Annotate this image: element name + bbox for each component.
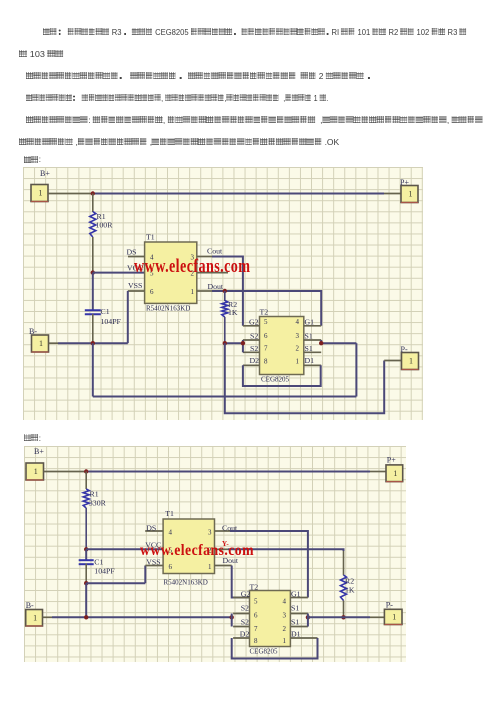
- pin 2 stub: [197, 272, 228, 274]
- transistor T2 (CEG8205): [260, 308, 304, 384]
- svg-text:D1: D1: [291, 630, 301, 639]
- resistor R2: [341, 575, 355, 617]
- svg-text:5: 5: [254, 598, 258, 606]
- svg-text:S1: S1: [305, 344, 313, 353]
- svg-text:3: 3: [296, 332, 300, 340]
- svg-text:104PF: 104PF: [101, 317, 122, 326]
- wire rail to C1: [92, 273, 94, 311]
- svg-text:B+: B+: [34, 447, 44, 456]
- wire rail to B-: [85, 583, 87, 617]
- wire B+ rail: [44, 471, 387, 473]
- svg-text:P-: P-: [386, 601, 393, 610]
- svg-text:Cout: Cout: [207, 247, 223, 256]
- port B-: [29, 327, 49, 352]
- pin S1 (3): [304, 331, 321, 340]
- pin G1 (4): [304, 317, 321, 326]
- wire S1 to P-: [308, 614, 385, 627]
- port B+: [31, 169, 50, 202]
- node S1 junction: [306, 615, 310, 619]
- port P+: [386, 456, 403, 482]
- svg-text:1: 1: [39, 189, 43, 198]
- pin D2 (8): [233, 630, 249, 639]
- svg-text:P+: P+: [400, 178, 409, 187]
- node R2 bottom junction: [341, 615, 345, 619]
- svg-text:R2: R2: [345, 577, 354, 586]
- schematic 1: [23, 167, 423, 420]
- svg-text:6: 6: [169, 563, 173, 571]
- port P+: [400, 178, 418, 203]
- port P-: [401, 345, 419, 370]
- svg-text:G1: G1: [291, 590, 301, 599]
- pin G2 (5): [233, 590, 250, 599]
- wire R2/S2 net: [225, 340, 243, 352]
- svg-text:D1: D1: [305, 356, 315, 365]
- node VCC junction: [91, 270, 95, 274]
- pin G2 (5): [243, 317, 260, 326]
- svg-text:3: 3: [283, 612, 287, 620]
- svg-text:S2: S2: [250, 331, 258, 340]
- wire D2-D1 link: [232, 638, 318, 659]
- pin VCC (5): [127, 264, 143, 273]
- node VSS junction: [84, 581, 88, 585]
- svg-text:1: 1: [33, 613, 37, 622]
- wire Dout to G2: [232, 566, 250, 598]
- svg-text:6: 6: [254, 612, 258, 620]
- svg-text:DS: DS: [146, 524, 156, 533]
- svg-text:1: 1: [208, 563, 212, 571]
- node B+/R1 junction: [91, 191, 95, 195]
- capacitor C1: [79, 558, 116, 584]
- svg-text:P+: P+: [387, 456, 396, 465]
- resistor R1: [83, 472, 106, 550]
- svg-text:B-: B-: [29, 327, 37, 336]
- pin S2 (6): [233, 604, 249, 614]
- wire Dout to G1: [212, 291, 321, 326]
- svg-text:1: 1: [392, 612, 396, 621]
- wire VCC: [86, 548, 163, 550]
- svg-text:7: 7: [254, 625, 258, 633]
- svg-text:1K: 1K: [228, 308, 238, 317]
- pin VSS (6): [146, 558, 160, 567]
- pin S1 (2): [290, 618, 308, 627]
- svg-text:CEG8205: CEG8205: [261, 376, 290, 384]
- svg-text:Dout: Dout: [208, 282, 224, 291]
- pin Cout (3): [215, 524, 238, 533]
- op-amp U1 (T1 R5402N163KD): [145, 233, 197, 313]
- wire B+ rail: [48, 193, 401, 195]
- node S2 junction: [241, 341, 245, 345]
- wire D2-D1 link: [243, 365, 321, 386]
- svg-text:1: 1: [34, 467, 38, 476]
- wire pin2 to R2: [228, 549, 344, 575]
- capacitor C1: [85, 307, 122, 343]
- resistor R2: [222, 291, 238, 343]
- wire VSS link: [86, 566, 163, 584]
- svg-text:D2: D2: [240, 630, 250, 639]
- svg-text:T1: T1: [146, 233, 155, 242]
- svg-text:7: 7: [264, 344, 268, 352]
- pin Dout (1): [215, 556, 239, 566]
- op-amp U1 (T1 R5402N163KD): [163, 509, 214, 587]
- pin G1 (4): [290, 590, 308, 599]
- node S2 junction: [230, 615, 234, 619]
- pin D2 (8): [243, 356, 260, 365]
- svg-text:S1: S1: [305, 331, 313, 340]
- svg-text:4: 4: [283, 598, 287, 606]
- svg-text:R1: R1: [90, 490, 99, 499]
- svg-text:1: 1: [409, 357, 413, 366]
- wire S1 net: [93, 340, 357, 397]
- pin VCC (5): [145, 540, 161, 549]
- svg-text:100R: 100R: [96, 221, 114, 230]
- pin D1 (1): [290, 630, 317, 639]
- svg-text:P-: P-: [401, 345, 408, 354]
- svg-text:1: 1: [39, 339, 43, 348]
- node R2 junction: [223, 341, 227, 345]
- pin S2 (7): [233, 618, 249, 627]
- svg-text:R5402N163KD: R5402N163KD: [164, 579, 208, 587]
- node B-/rail junction: [84, 615, 88, 619]
- port B+: [26, 447, 44, 480]
- port B-: [26, 601, 43, 626]
- svg-text:G2: G2: [249, 317, 259, 326]
- svg-text:T2: T2: [260, 308, 269, 317]
- svg-text:C1: C1: [101, 307, 110, 316]
- node S1 junction: [319, 341, 323, 345]
- svg-text:1K: 1K: [345, 586, 355, 595]
- node VCC junction: [84, 547, 88, 551]
- svg-text:S1: S1: [291, 618, 299, 627]
- wire Cout to G1: [230, 531, 308, 598]
- svg-text:T2: T2: [250, 583, 259, 592]
- svg-text:T1: T1: [165, 509, 174, 518]
- svg-text:C1: C1: [94, 558, 103, 567]
- pin S2 (6): [243, 331, 260, 340]
- pin DS (4): [127, 248, 145, 257]
- svg-text:S2: S2: [241, 618, 249, 627]
- svg-text:8: 8: [254, 637, 258, 645]
- svg-text:B+: B+: [40, 169, 50, 178]
- svg-text:B-: B-: [26, 601, 34, 610]
- svg-text:1: 1: [283, 637, 287, 645]
- wire S2 jog: [231, 614, 233, 627]
- svg-text:1: 1: [393, 469, 397, 478]
- pin S2 (7): [243, 344, 260, 353]
- node B- rail junction: [91, 341, 95, 345]
- pin Dout (1): [197, 282, 224, 291]
- svg-text:DS: DS: [127, 248, 137, 257]
- schematic 2: [24, 446, 406, 662]
- wire P- net: [225, 343, 402, 413]
- svg-text:8: 8: [264, 357, 268, 365]
- svg-text:VSS: VSS: [128, 281, 142, 290]
- svg-text:104PF: 104PF: [94, 567, 115, 576]
- svg-text:1: 1: [409, 190, 413, 199]
- wire B- to VSS: [49, 291, 129, 343]
- svg-text:2: 2: [283, 625, 287, 633]
- svg-text:5: 5: [264, 318, 268, 326]
- wire rail to C1: [85, 549, 87, 560]
- svg-text:4: 4: [296, 318, 300, 326]
- wire B- rail: [43, 616, 232, 618]
- pin DS (4): [145, 524, 163, 533]
- pin S1 (3): [290, 604, 308, 614]
- pin VSS (6): [128, 281, 145, 291]
- svg-text:S2: S2: [241, 604, 249, 613]
- node B+/R1 junction: [84, 469, 88, 473]
- transistor T2 (CEG8205): [250, 583, 291, 656]
- svg-text:D2: D2: [250, 356, 260, 365]
- pin S1 (2): [304, 344, 321, 353]
- svg-text:1: 1: [191, 288, 195, 296]
- svg-text:4: 4: [169, 529, 173, 537]
- svg-text:3: 3: [208, 529, 212, 537]
- node Dout/R2 junction: [223, 289, 227, 293]
- svg-text:1: 1: [296, 357, 300, 365]
- pin D1 (1): [304, 356, 321, 365]
- svg-text:S1: S1: [291, 604, 299, 613]
- svg-text:G2: G2: [241, 590, 251, 599]
- svg-text:6: 6: [150, 288, 154, 296]
- wire Cout to G2: [212, 257, 243, 326]
- svg-text:330R: 330R: [89, 499, 107, 508]
- svg-text:2: 2: [296, 344, 300, 352]
- pin 2 stub: [215, 548, 229, 550]
- svg-text:R5402N163KD: R5402N163KD: [146, 305, 190, 313]
- wire VCC: [93, 272, 145, 274]
- svg-text:6: 6: [264, 332, 268, 340]
- resistor R1: [90, 194, 113, 273]
- pin Cout (3): [197, 247, 223, 257]
- svg-text:G1: G1: [305, 317, 315, 326]
- svg-text:S2: S2: [250, 344, 258, 353]
- port P-: [384, 601, 402, 625]
- svg-text:CEG8205: CEG8205: [250, 648, 279, 656]
